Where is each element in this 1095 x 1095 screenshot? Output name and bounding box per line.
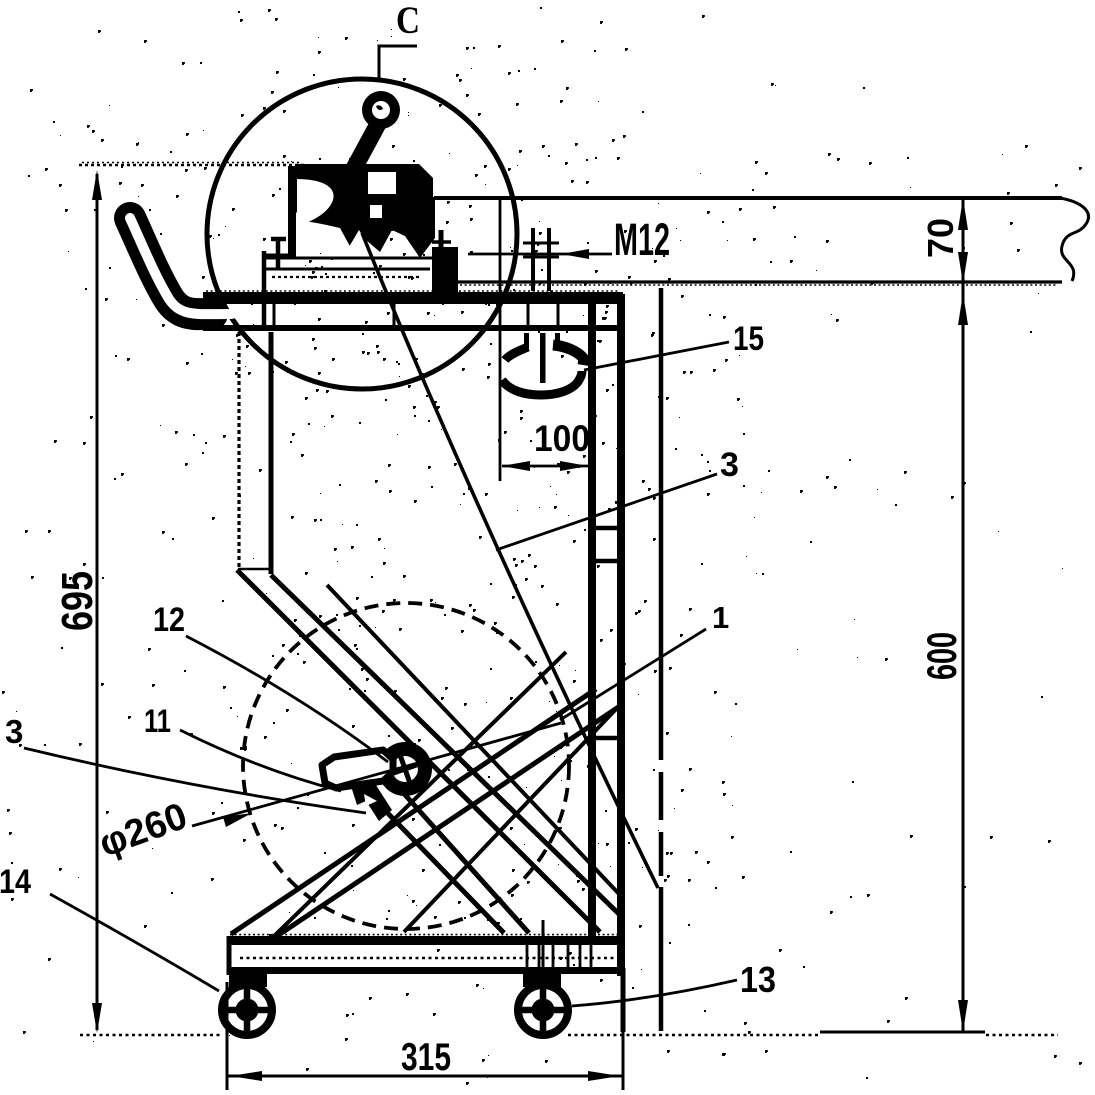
cable from clamp to leg	[362, 233, 658, 888]
clamp bracket bolt left	[271, 239, 286, 268]
wheel circle dia 260 (dashed)	[243, 603, 569, 929]
link rod S1	[272, 652, 566, 938]
foot center bar	[540, 333, 546, 383]
svg-text:11: 11	[144, 703, 171, 739]
bottom platform mid dotted	[240, 957, 620, 959]
svg-text:12: 12	[153, 601, 185, 639]
table beam top edge	[434, 196, 1062, 200]
second arm lower edge	[374, 799, 504, 933]
label C leader	[379, 46, 417, 82]
serration top ext	[82, 162, 302, 164]
dim 695 top extension line (dotted)	[79, 164, 305, 167]
table beam bottom edge	[452, 280, 1062, 283]
clamp bracket step horizontal	[263, 254, 295, 259]
foot neck left bar	[524, 333, 529, 349]
label 13 text	[740, 959, 776, 1000]
label 3 left leader	[24, 748, 366, 813]
dim 315 left arrow	[230, 1071, 262, 1081]
label 12 text	[153, 601, 185, 639]
clamp nut block	[432, 247, 458, 293]
M12 arrowhead	[561, 249, 589, 259]
label 11 leader	[180, 730, 341, 791]
clamp body	[296, 164, 435, 258]
dim 315 left extension	[226, 982, 229, 1090]
label dia260 arrowhead	[223, 813, 252, 827]
svg-text:315: 315	[401, 1036, 451, 1079]
dim 315 right extension	[621, 968, 626, 1090]
table beam break line	[1060, 198, 1088, 281]
svg-text:100: 100	[534, 418, 590, 459]
dim 315 line	[227, 1075, 623, 1078]
foot right wing	[553, 345, 584, 365]
M12 rod	[533, 228, 549, 291]
dim 100 left arrow	[502, 461, 530, 471]
clamp body cutout window	[368, 172, 396, 194]
dim 70 top arrow	[958, 198, 968, 230]
left caster wheel part 14	[219, 982, 275, 1038]
svg-text:70: 70	[920, 218, 961, 258]
label dia260 leader	[192, 723, 561, 826]
svg-text:14: 14	[0, 863, 31, 901]
bottom platform bottom band	[227, 967, 622, 974]
pawl tail slit	[364, 794, 377, 806]
foot left wing	[505, 347, 528, 360]
dim 600 top arrow	[958, 293, 968, 325]
foot bowl	[502, 371, 582, 395]
left column inner	[269, 332, 274, 574]
dim 70 bottom arrow	[958, 252, 968, 284]
svg-text:695: 695	[53, 571, 102, 631]
handle outer	[130, 218, 212, 314]
right caster wheel part 13	[515, 982, 571, 1038]
dim 600 bottom arrow	[958, 1000, 968, 1032]
svg-text:600: 600	[918, 632, 965, 680]
svg-text:1: 1	[712, 600, 729, 635]
M12 arrow line	[468, 253, 612, 256]
pawl tail	[350, 779, 392, 821]
serration platform top	[206, 290, 620, 292]
label 14 text	[0, 863, 31, 901]
bottom platform top band	[227, 936, 622, 945]
dim 100 line	[502, 465, 588, 468]
dim 70 text	[920, 218, 961, 258]
extension line x500	[499, 200, 502, 481]
clamp plate dotted edge	[272, 276, 420, 278]
dim 315 right arrow	[588, 1071, 620, 1081]
pivot hub	[378, 742, 432, 796]
floor line dotted	[80, 1034, 1058, 1037]
left column outer (dashed)	[237, 332, 240, 568]
label 15 leader	[584, 342, 729, 370]
svg-text:13: 13	[740, 959, 776, 1000]
handle inner white	[130, 218, 232, 314]
dim 600 line	[962, 282, 965, 1031]
second arm upper edge	[398, 787, 529, 933]
strut A lower edge	[271, 575, 620, 915]
dim 100 right arrow	[560, 461, 588, 471]
dim 600 text	[918, 632, 965, 680]
dim 695 text	[53, 571, 102, 631]
label 12 leader	[186, 636, 388, 762]
dim 70 line	[962, 200, 965, 282]
label 14 leader	[50, 894, 219, 991]
column bend tick	[238, 568, 271, 571]
right column outer bar	[617, 294, 625, 976]
detail circle C	[207, 79, 517, 389]
label 3 left text	[5, 713, 23, 750]
clamp plate line lower	[262, 268, 430, 271]
clamp bottom notch	[346, 230, 371, 252]
dim 315 text	[401, 1036, 451, 1079]
right column rungs	[596, 528, 617, 738]
cart platform bottom line	[203, 325, 623, 331]
cart platform ticks	[274, 302, 558, 325]
label dia260 text	[94, 795, 193, 865]
floor line solid	[820, 1031, 985, 1034]
brace B lower edge	[277, 706, 620, 936]
table leg line	[659, 288, 664, 1031]
svg-text:M12: M12	[614, 214, 670, 265]
label C text	[396, 0, 420, 42]
svg-text:C: C	[396, 0, 420, 42]
clamp body cutout spot	[370, 205, 382, 218]
clamp lever shaft	[352, 124, 378, 172]
label 3 right text	[720, 446, 739, 484]
M12 text	[614, 214, 670, 265]
serration bottom platform	[230, 934, 618, 936]
dim 695 line	[96, 174, 99, 1030]
label 11 text	[144, 703, 171, 739]
dim 695 top arrow	[92, 170, 102, 200]
svg-text:3: 3	[5, 713, 23, 750]
brace B upper edge	[231, 689, 596, 934]
right caster center line	[542, 920, 545, 996]
label 1 leader	[560, 629, 706, 720]
clamp body cutout left	[297, 179, 334, 225]
cart platform top band	[203, 292, 623, 304]
clamp bolt right	[432, 230, 451, 268]
link rod S2	[404, 707, 618, 932]
label 13 leader	[572, 980, 737, 1006]
pawl flag	[322, 750, 393, 788]
left caster mount	[229, 972, 267, 987]
right column inner bar	[588, 294, 596, 936]
serration beam bottom	[460, 284, 1058, 286]
svg-text:3: 3	[720, 446, 739, 484]
parallel link L3	[327, 585, 620, 895]
svg-text:15: 15	[733, 320, 764, 358]
foot neck right bar	[555, 333, 560, 349]
label 15 text	[733, 320, 764, 358]
clamp left bracket plate	[288, 166, 296, 258]
clamp plate line upper	[262, 257, 452, 260]
label 1 text	[712, 600, 729, 635]
clamp bracket step vertical	[262, 251, 267, 330]
bottom platform left cap	[227, 936, 232, 975]
right caster mount	[523, 972, 561, 987]
clamp lever knob	[362, 91, 400, 129]
dim 695 bottom arrow	[92, 1003, 102, 1033]
dim 100 text	[534, 418, 590, 459]
bottom platform ticks	[527, 945, 591, 967]
label 3 right leader	[496, 474, 717, 550]
M12 rod ticks	[523, 243, 559, 257]
strut A upper edge	[237, 570, 600, 932]
